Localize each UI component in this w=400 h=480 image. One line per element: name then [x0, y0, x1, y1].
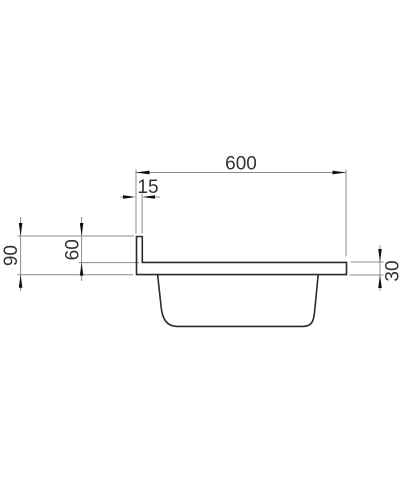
svg-text:90: 90	[1, 245, 22, 266]
extension line top (for 90 and 60)	[18, 235, 134, 237]
dimension line 60 (arrows outside)	[80, 217, 84, 281]
dimension line 600	[136, 171, 346, 175]
dimension text 90 (rotated)	[1, 245, 22, 266]
dimension text 15	[137, 177, 158, 198]
extension line top right (for 30)	[351, 261, 384, 263]
sink bowl outline	[158, 275, 319, 327]
extension line right of 600	[345, 170, 347, 257]
extension line bottom right (for 30)	[350, 274, 384, 276]
svg-text:600: 600	[225, 153, 257, 174]
dimension text 600	[225, 153, 257, 174]
dimension line 15 (arrows outside)	[121, 195, 161, 199]
svg-text:15: 15	[137, 177, 158, 198]
extension line middle (for 60)	[79, 262, 140, 264]
svg-text:60: 60	[63, 239, 84, 260]
extension line left of 600/15	[135, 170, 137, 234]
dimension line 30 (arrows outside)	[378, 245, 382, 291]
dimension text 30 (rotated)	[383, 260, 400, 281]
dimension text 60 (rotated)	[63, 239, 84, 260]
dimension line 90 (arrows outside)	[19, 217, 23, 291]
sink rim and upstand outline	[137, 237, 347, 275]
extension line bottom (for 90)	[18, 274, 134, 276]
svg-text:30: 30	[383, 260, 400, 281]
extension line right of 15	[141, 194, 143, 234]
